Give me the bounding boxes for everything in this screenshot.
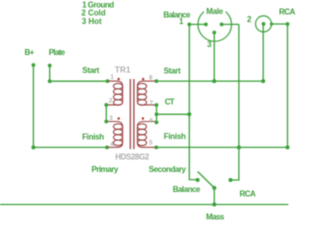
- pin3 attach dot: [104, 120, 108, 124]
- wire Finish bus pin5 to RCA shell: [156, 146, 287, 148]
- svg-text:8: 8: [149, 74, 153, 81]
- XLR pin3 dot: [212, 31, 216, 35]
- legend XLR pin functions: [81, 0, 114, 25]
- transformer TR1: [108, 81, 155, 147]
- svg-text:HDS28G2: HDS28G2: [115, 152, 150, 161]
- svg-text:Finish: Finish: [164, 132, 186, 141]
- TR1 secondary upper winding: [137, 81, 155, 86]
- svg-text:5: 5: [149, 140, 153, 147]
- wire jut pins 2-3: [105, 105, 107, 122]
- svg-text:Start: Start: [82, 66, 99, 75]
- svg-text:Start: Start: [164, 66, 181, 75]
- svg-text:RCA: RCA: [279, 8, 295, 17]
- wire Balance net vertical: [189, 24, 197, 179]
- switch SW1 arm: [198, 172, 215, 188]
- svg-text:3 Hot: 3 Hot: [82, 17, 102, 26]
- pin1 attach dot: [106, 79, 110, 83]
- svg-text:Mass: Mass: [206, 212, 225, 221]
- svg-text:7: 7: [150, 100, 154, 107]
- wire jut pins 7-6: [156, 105, 158, 122]
- wire XLR pin3 drop: [213, 33, 215, 82]
- TR1 primary upper winding: [108, 81, 123, 86]
- node shell corner: [286, 22, 290, 26]
- svg-text:3: 3: [207, 40, 212, 49]
- wire Plate to TR1 pin1: [50, 80, 108, 82]
- wire B+ to TR1 pin4: [33, 146, 107, 148]
- wire XLR pin2 out: [222, 23, 239, 25]
- svg-text:1: 1: [179, 17, 184, 26]
- svg-text:3: 3: [109, 115, 113, 122]
- switch throw Balance dot: [196, 178, 200, 182]
- wire Start bus pin8 to RCA tip: [156, 80, 263, 82]
- terminal dot B+: [32, 63, 36, 67]
- pin6 attach dot: [155, 121, 159, 125]
- wire B+ vertical: [32, 65, 34, 147]
- svg-text:1: 1: [110, 74, 114, 81]
- XLR pin1 dot: [204, 23, 208, 27]
- svg-text:Balance: Balance: [173, 185, 201, 194]
- pin5 attach dot: [154, 145, 158, 149]
- wire to XLR pin1: [189, 23, 206, 25]
- svg-text:Male: Male: [206, 7, 223, 16]
- CT mid dot: [155, 112, 159, 116]
- corner dot Plate: [48, 79, 52, 83]
- pin2 attach dot: [104, 103, 108, 107]
- node Finish/Cold junction: [237, 145, 241, 149]
- svg-text:Secondary: Secondary: [149, 165, 187, 174]
- TR1 primary lower winding: [108, 122, 123, 127]
- svg-text:Plate: Plate: [49, 48, 66, 57]
- wire RCA shell: [272, 24, 288, 147]
- connector J1 XLR Male circle: [198, 8, 232, 42]
- corner dot B+: [31, 145, 35, 149]
- switch pole dot: [212, 186, 216, 190]
- XLR pin2 dot: [220, 23, 224, 27]
- svg-text:B+: B+: [25, 48, 35, 57]
- node CT junction: [187, 112, 191, 116]
- connector J2 RCA circle: [256, 16, 272, 32]
- phase dot pin1: [117, 78, 119, 80]
- TR1 core: [130, 79, 134, 149]
- wire CT: [157, 113, 190, 115]
- wire RCA tip drop: [262, 24, 264, 81]
- pin4 attach dot: [105, 145, 109, 149]
- pin7 attach dot: [155, 103, 159, 107]
- phase dot pin8: [142, 78, 144, 80]
- TR1 secondary lower winding: [137, 122, 155, 127]
- node Finish/shell corner: [286, 145, 290, 149]
- RCA shell dot: [270, 22, 273, 25]
- svg-text:CT: CT: [165, 98, 175, 107]
- switch throw RCA dot: [229, 178, 233, 182]
- node Start/RCA corner: [261, 79, 265, 83]
- phase dot pin6: [142, 117, 144, 119]
- svg-text:Balance: Balance: [163, 10, 191, 19]
- node Start/pin3 junction: [212, 79, 216, 83]
- svg-text:Finish: Finish: [82, 132, 104, 141]
- label Male: [204, 7, 226, 16]
- Mass bus: [0, 204, 288, 206]
- wire Cold net vertical: [231, 24, 239, 180]
- wire Plate vertical: [49, 66, 51, 82]
- svg-text:2: 2: [109, 97, 113, 104]
- svg-text:RCA: RCA: [240, 189, 256, 198]
- pin8 attach dot: [155, 79, 159, 83]
- terminal dot Plate: [48, 64, 52, 68]
- RCA tip dot: [262, 22, 266, 26]
- wire pole to Mass: [213, 188, 215, 205]
- node Balance top junction: [187, 23, 191, 27]
- svg-text:6: 6: [150, 117, 154, 124]
- svg-text:2: 2: [247, 15, 252, 24]
- node pole/Mass junction: [212, 203, 216, 207]
- svg-text:TR1: TR1: [115, 66, 131, 75]
- svg-text:Primary: Primary: [92, 165, 119, 174]
- svg-text:4: 4: [110, 141, 114, 148]
- phase dot pin3: [118, 117, 120, 119]
